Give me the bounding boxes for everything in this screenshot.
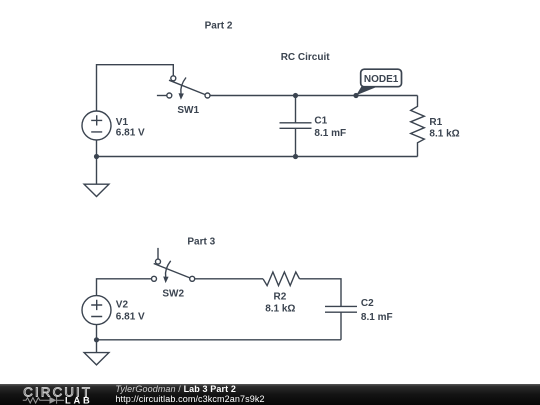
svg-text:8.1 kΩ: 8.1 kΩ: [265, 304, 295, 315]
wire V2 top to SW2: [97, 279, 152, 296]
svg-text:8.1 mF: 8.1 mF: [314, 128, 346, 139]
node dot V1 bottom: [94, 154, 99, 159]
node dot NODE1: [353, 93, 358, 98]
svg-text:C1: C1: [314, 116, 327, 127]
resistor R2: [263, 272, 300, 286]
capacitor C2: [325, 306, 357, 339]
svg-text:6.81 V: 6.81 V: [116, 312, 145, 323]
node flag NODE1: [356, 69, 401, 95]
bottom rail wire: [97, 156, 418, 158]
switch SW2: [152, 248, 195, 283]
footer bar: [0, 384, 540, 405]
wire V2 bottom to ground: [96, 325, 98, 353]
svg-text:8.1 mF: 8.1 mF: [361, 312, 393, 323]
svg-text:http://circuitlab.com/c3kcm2an: http://circuitlab.com/c3kcm2an7s9k2: [115, 394, 264, 404]
capacitor C1: [280, 96, 312, 157]
svg-text:LAB: LAB: [65, 395, 93, 405]
logo resistor-diode squiggle: [23, 397, 64, 404]
svg-text:RC Circuit: RC Circuit: [281, 52, 331, 63]
node dot V2 bottom: [94, 337, 99, 342]
CircuitLab logo wordmark: [23, 384, 93, 405]
ground (part 2): [84, 184, 109, 196]
svg-text:V2: V2: [116, 300, 129, 311]
svg-text:NODE1: NODE1: [364, 74, 399, 85]
svg-text:V1: V1: [116, 117, 129, 128]
svg-text:R2: R2: [274, 291, 287, 302]
svg-text:C2: C2: [361, 298, 374, 309]
svg-text:6.81 V: 6.81 V: [116, 128, 145, 139]
svg-text:Part 2: Part 2: [205, 21, 233, 32]
bottom rail wire (part 3): [97, 339, 342, 341]
svg-text:R1: R1: [429, 117, 442, 128]
svg-text:SW1: SW1: [177, 105, 199, 116]
wire V1 bottom to ground: [96, 140, 98, 184]
svg-text:SW2: SW2: [162, 289, 184, 300]
node dot C1 top: [293, 93, 298, 98]
wire V1 top to SW1: [97, 65, 174, 111]
wire SW2 to R2: [195, 278, 263, 280]
svg-text:Part 3: Part 3: [187, 237, 215, 248]
resistor R1: [411, 96, 425, 157]
footer credit line: [115, 384, 264, 404]
voltage source V2: [82, 296, 111, 325]
wire R2 to C2: [300, 279, 342, 307]
svg-text:8.1 kΩ: 8.1 kΩ: [429, 129, 459, 140]
node dot C1 bottom: [293, 154, 298, 159]
switch SW1: [157, 76, 210, 100]
voltage source V1: [82, 111, 111, 140]
svg-text:TylerGoodman / Lab 3 Part 2: TylerGoodman / Lab 3 Part 2: [115, 384, 236, 394]
ground (part 3): [84, 353, 109, 365]
wire SW1 to R1 (top rail): [210, 95, 418, 97]
